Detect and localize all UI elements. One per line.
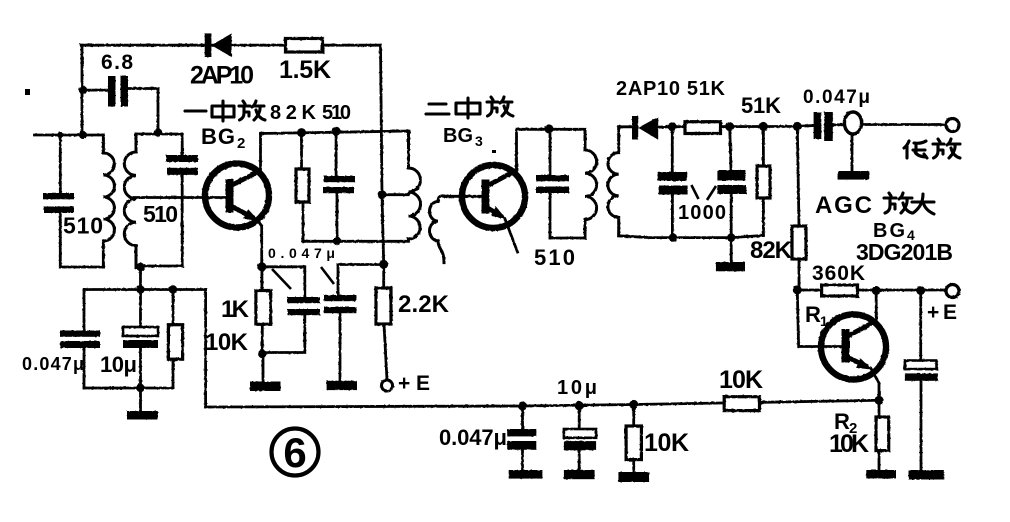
wire BG4 collector up <box>875 291 878 323</box>
resistor R2 10K <box>876 400 889 470</box>
CJK 放 of 放大 (AGC) <box>884 193 912 213</box>
pointer slash to 1000B <box>707 186 716 200</box>
node tank1-cap junction <box>57 132 63 138</box>
wire 360K rail <box>797 289 946 292</box>
transistor BG2 <box>205 164 269 228</box>
svg-text:2: 2 <box>237 135 245 152</box>
ground below 10u bottom <box>564 470 595 479</box>
svg-text:3: 3 <box>475 133 483 149</box>
pointer slash to cap1 <box>272 269 291 289</box>
wire lower-left bias rail <box>84 288 206 291</box>
svg-text:0.047μ: 0.047μ <box>22 354 84 374</box>
svg-text:1000: 1000 <box>678 202 726 224</box>
wire BG2 collector line <box>261 131 410 134</box>
svg-text:510: 510 <box>63 213 103 239</box>
wire top loop horizontal <box>81 44 381 47</box>
svg-text:6: 6 <box>283 429 306 476</box>
capacitor 0.047u (AGC filter bottom) <box>507 406 536 470</box>
node tank1-top junction <box>79 131 87 139</box>
svg-text:10K: 10K <box>719 366 763 394</box>
node rail B to +E branch <box>379 260 388 269</box>
wire rail B <box>338 263 384 266</box>
node tank2 top junction <box>154 128 162 136</box>
svg-text:10μ: 10μ <box>100 352 137 377</box>
node 1K bottom junction <box>258 350 266 358</box>
ground below electrolytic <box>909 470 945 480</box>
node BG4 emitter on AGC bus <box>875 396 884 405</box>
node 10u-left top <box>136 285 144 293</box>
resistor 51K vertical <box>757 126 770 235</box>
CJK 放 of 二中放 <box>487 97 513 116</box>
capacitor 0.047u (AGC filter left) <box>60 290 100 389</box>
capacitor 0.047u (emitter bypass) <box>262 267 320 353</box>
node 1000A bottom <box>669 233 677 241</box>
ground below 0.047 bottom <box>509 470 543 479</box>
CJK 中 of 一中放 <box>212 101 234 121</box>
wire tank1 bottom <box>60 266 103 269</box>
wire BG3 base line <box>443 195 482 198</box>
inductor T3 secondary coil <box>430 196 447 263</box>
node electrolytic top <box>916 286 925 295</box>
resistor 10K (bottom vertical) <box>626 404 641 472</box>
wire 6.8 cap to tank2 top <box>157 89 160 135</box>
svg-text:10K: 10K <box>644 429 689 457</box>
svg-text:R: R <box>805 302 821 327</box>
CJK 低 of 低放 <box>904 141 927 158</box>
resistor 360K <box>822 285 858 296</box>
svg-text:+E: +E <box>927 301 957 324</box>
ground below R2 <box>866 470 896 478</box>
svg-text:2AP10 51K: 2AP10 51K <box>616 78 726 100</box>
node T4 cap top <box>545 124 554 133</box>
capacitor electrolytic (+E bypass right) <box>905 291 938 471</box>
wire bias rail A <box>305 240 410 243</box>
CJK 大 of 放大 (AGC) <box>912 194 934 214</box>
inductor T4 primary coil <box>585 130 597 238</box>
capacitor 0.047u (output coupling) <box>814 112 845 141</box>
svg-text:1K: 1K <box>221 296 250 323</box>
CJK 放 of 低放 <box>933 139 960 158</box>
svg-text:AGC: AGC <box>815 192 874 219</box>
svg-text:2.2K: 2.2K <box>398 291 450 318</box>
svg-text:0.047μ: 0.047μ <box>439 425 507 450</box>
wire AGC vertical (left) <box>204 290 207 408</box>
transistor BG4 <box>821 315 886 401</box>
wire T4 primary bottom <box>550 237 585 240</box>
CJK 放 of 一中放 <box>239 101 265 120</box>
node 1000B top <box>725 122 734 131</box>
svg-text:10μ: 10μ <box>557 377 597 399</box>
wire lower-left bottom <box>84 387 173 390</box>
node lower-left ground junction <box>136 384 144 392</box>
node 1000A top <box>668 122 677 131</box>
pointer slash to 1000A <box>691 185 698 199</box>
svg-text:360K: 360K <box>812 262 865 285</box>
CJK 中 of 二中放 <box>456 98 480 118</box>
wire T4 secondary top to diode <box>619 125 632 128</box>
capacitor 6.8 <box>83 76 158 107</box>
resistor 10K (left) <box>168 290 182 389</box>
ground below jack <box>838 134 870 180</box>
figure number 6 <box>272 429 319 476</box>
inductor T3 primary coil <box>409 131 421 241</box>
resistor 1.5K <box>286 39 323 53</box>
svg-text:10K: 10K <box>829 430 869 458</box>
pointer slash to cap2 <box>321 267 334 284</box>
wire tank2 top <box>136 133 182 136</box>
wire BG3 collector line <box>517 128 586 131</box>
node BG2 emitter junction <box>257 262 266 271</box>
stray scan speck <box>25 89 30 95</box>
svg-text:1: 1 <box>820 313 828 329</box>
svg-text:BG: BG <box>443 125 473 147</box>
svg-text:82K: 82K <box>270 102 317 124</box>
node 510 bottom on rail A <box>333 237 341 245</box>
node 360K rail left <box>793 286 802 295</box>
wire detector line <box>658 126 813 128</box>
svg-text:1.5K: 1.5K <box>279 56 331 84</box>
resistor 2.2K <box>376 288 391 380</box>
node 1000B bottom <box>727 233 735 241</box>
wire tank2 bottom <box>136 265 182 268</box>
capacitor 1000 A <box>658 127 688 238</box>
ground below 10K bottom <box>618 472 649 482</box>
CJK 一 (yi) of 一中放 <box>185 109 206 112</box>
svg-text:0.047μ: 0.047μ <box>803 87 870 108</box>
node 510 top <box>332 127 341 136</box>
node 82K-det top <box>793 122 802 131</box>
capacitor 10u electrolytic (left) <box>123 290 158 389</box>
svg-text:82K: 82K <box>750 237 793 264</box>
resistor 51K horizontal <box>685 122 721 134</box>
svg-text:10K: 10K <box>205 329 249 356</box>
wire AGC bus <box>206 400 879 407</box>
capacitor 510 tank2 <box>166 134 198 266</box>
wire input stub <box>35 134 61 137</box>
terminal output (low-freq amp) <box>946 119 959 132</box>
wire tank1 top <box>60 134 103 137</box>
wire BG2 emitter down <box>260 226 263 267</box>
svg-text:510: 510 <box>534 245 575 270</box>
node 6.8 cap left junction <box>79 86 87 94</box>
wire BG4 base feed <box>797 290 842 347</box>
wire tap to T3 coil <box>382 193 409 196</box>
CJK 二 of 二中放 <box>426 104 449 114</box>
transistor BG3 <box>462 165 525 252</box>
resistor 1K <box>256 267 271 354</box>
wire jack to output terminal <box>862 123 946 126</box>
inductor T2 primary coil <box>103 135 114 267</box>
node 51K-vert top <box>759 122 768 131</box>
node 10K-left top <box>169 285 177 293</box>
inductor T4 secondary coil <box>608 126 619 236</box>
capacitor 510 tank1 <box>43 135 74 267</box>
wire top loop right vertical <box>381 45 384 288</box>
svg-text:2AP10: 2AP10 <box>190 62 254 90</box>
node 0.047 bottom top <box>518 402 527 411</box>
resistor 82K (BG2 bias) <box>296 133 309 242</box>
ground below 1K <box>250 354 281 391</box>
jack circle (output) <box>844 112 861 134</box>
node 10u bottom top <box>575 401 584 410</box>
svg-text:6.8: 6.8 <box>101 51 133 74</box>
wire BG2 collector up <box>259 134 262 173</box>
svg-text:BG: BG <box>201 124 235 149</box>
capacitor 1000 B <box>717 127 746 238</box>
ground below 1000B <box>716 238 745 272</box>
diode 2AP10 (neutralizing) <box>205 33 232 57</box>
terminal +E (left) <box>382 380 393 391</box>
node tank2 bottom junction <box>136 263 144 271</box>
node 10K bottom top <box>629 400 638 409</box>
node 82K top <box>297 128 306 137</box>
capacitor 10u electrolytic (bottom) <box>564 406 596 470</box>
terminal +E (right) <box>946 285 959 298</box>
wire BG3 collector up <box>515 129 518 171</box>
wire top loop left vertical <box>81 45 84 135</box>
diode 2AP10 (detector) <box>632 116 658 140</box>
capacitor 510 (BG3 tank) <box>536 129 569 238</box>
svg-text:51K: 51K <box>741 93 781 118</box>
wire detector bottom rail <box>619 235 764 237</box>
node BG4 collector top <box>872 286 881 295</box>
svg-text:510: 510 <box>143 201 178 227</box>
node coil tap <box>378 190 387 199</box>
capacitor 0.047u (+E bypass) <box>324 265 356 381</box>
resistor 82K (detector) <box>792 126 806 290</box>
resistor 10K (horizontal AGC) <box>724 397 759 411</box>
stray scan speck 2 <box>492 150 496 153</box>
ground lower-left <box>127 388 158 420</box>
inductor T2 secondary coil <box>124 134 136 268</box>
capacitor 510 (BG2 collector) <box>323 131 355 241</box>
svg-text:3DG201B: 3DG201B <box>856 239 953 265</box>
ground below +E bypass cap <box>327 381 357 390</box>
wire tank2 bottom to bias rail <box>139 267 142 290</box>
svg-text:510: 510 <box>322 102 351 124</box>
wire BG2 base line <box>134 196 226 199</box>
